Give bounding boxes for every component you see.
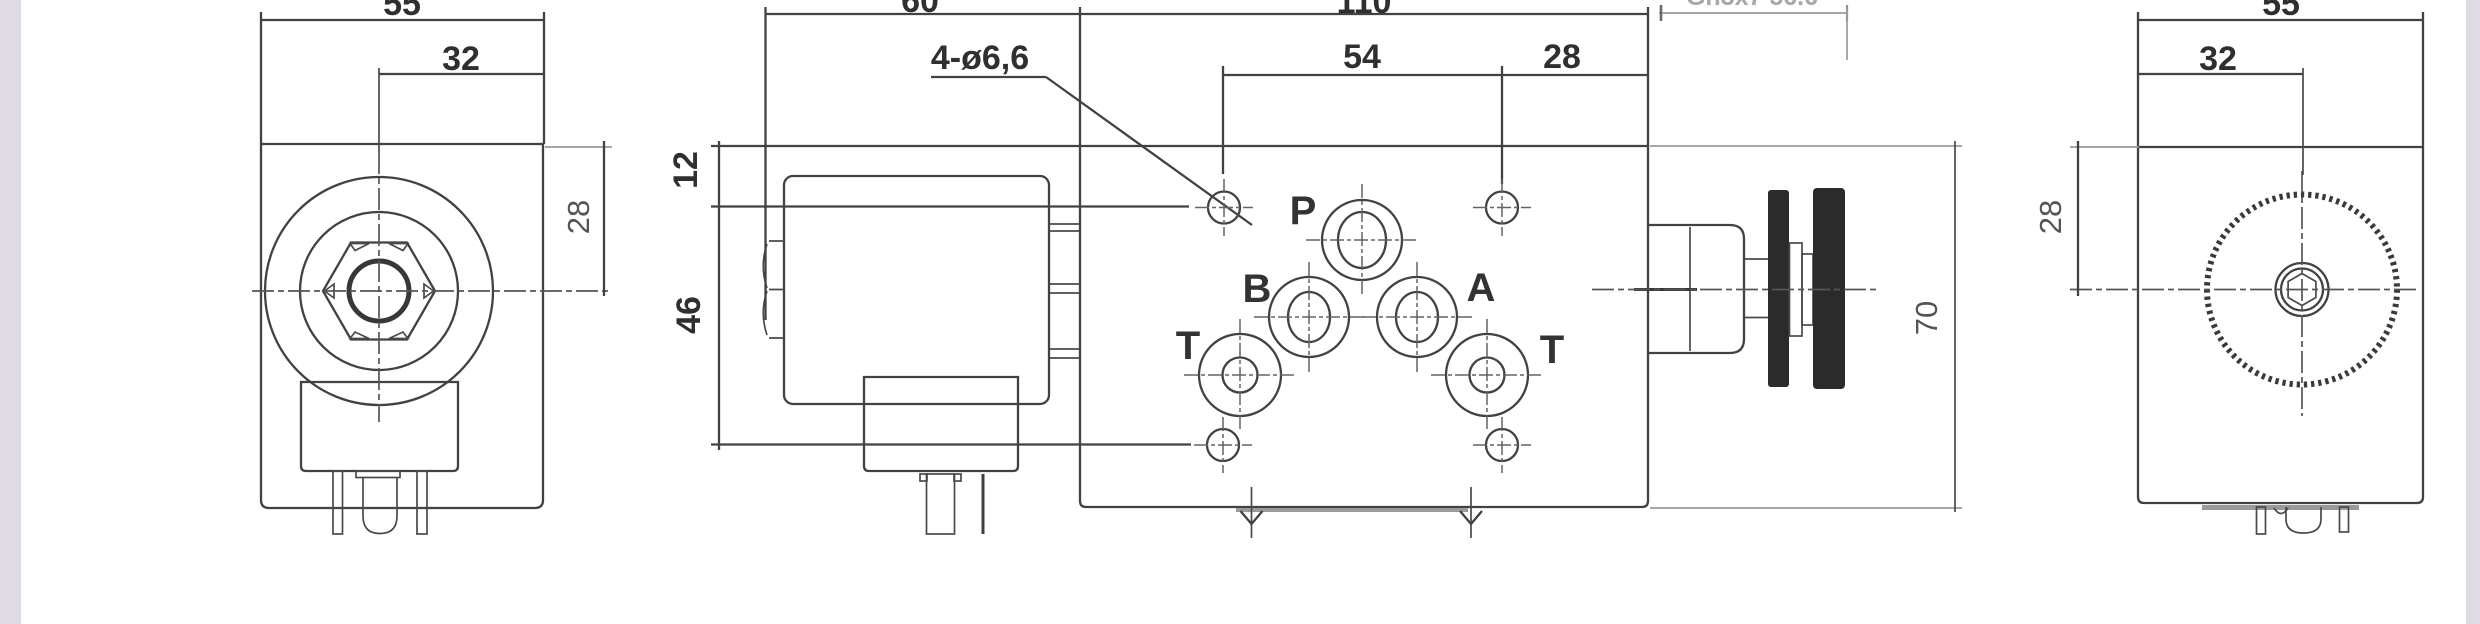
dim 70 ext top: [1650, 145, 1962, 147]
vertical centerline: [378, 68, 380, 152]
dim 32 ext right / centerline solid: [2302, 68, 2304, 175]
hex nut: [323, 243, 435, 340]
pin middle barrel: [363, 478, 397, 534]
mounting hole bottom-right: [1486, 429, 1518, 461]
svg-text:28: 28: [2033, 200, 2068, 234]
dim 55 ext left: [2137, 12, 2139, 147]
gasket band bottom: [1236, 508, 1468, 512]
dim 28 ext top: [545, 146, 612, 148]
dim 28 ext top: [2070, 146, 2139, 148]
solenoid connector box: [864, 377, 1018, 471]
hex chamfer mark right: [424, 284, 434, 298]
countersink mark right line: [1470, 487, 1472, 538]
dim 60 line: [766, 13, 1081, 15]
dim 55 ext left: [260, 12, 262, 144]
port P crosshair: [1306, 184, 1418, 296]
port A outer: [1377, 277, 1457, 357]
knob disc small (black): [1768, 190, 1789, 387]
dim 70 ext bottom: [1650, 507, 1962, 509]
countersink mark left arrow: [1241, 511, 1263, 524]
mounting hole bottom-left crosshair: [1194, 417, 1252, 473]
knob socket hexagon: [2288, 274, 2316, 306]
port B crosshair: [1254, 262, 1364, 372]
pin notch arc: [2274, 508, 2288, 514]
leader diagonal: [1046, 77, 1252, 225]
svg-text:Gn3x7 56.6: Gn3x7 56.6: [1686, 0, 1818, 11]
dim 12/46 vertical line: [718, 141, 720, 450]
mounting hole top-right: [1486, 192, 1518, 224]
svg-text:70: 70: [1909, 301, 1944, 335]
body left edge extension to dims: [1079, 7, 1081, 146]
pin barrel middle: [2286, 507, 2321, 533]
svg-text:46: 46: [670, 296, 708, 334]
dim 32 line: [379, 73, 544, 75]
knob hub outer circle: [2276, 263, 2329, 316]
washer large: [1790, 243, 1803, 336]
svg-text:55: 55: [383, 0, 421, 23]
extension line 12/46 boundary (y206.5): [711, 205, 1189, 207]
port B bore: [1288, 292, 1330, 342]
shaft bottom line: [1745, 317, 1768, 319]
dim 110 ext right / body edge extension: [1647, 7, 1649, 146]
gray dim ext right: [1846, 6, 1848, 60]
solenoid pin tab right: [954, 474, 961, 481]
mounting hole top-right crosshair: [1473, 179, 1531, 236]
connector box: [301, 382, 458, 471]
svg-text:110: 110: [1337, 0, 1392, 21]
gray dim line with arrows: [1659, 12, 1847, 14]
neck tube cap bottom: [1049, 349, 1080, 358]
port P outer: [1322, 200, 1402, 280]
vertical centerline: [2301, 171, 2303, 416]
svg-text:60: 60: [901, 0, 939, 20]
solenoid pin barrel: [927, 474, 955, 534]
left page margin strip: [0, 0, 21, 624]
extension line 46 bottom (y444.5): [711, 443, 1191, 445]
knob disc large (black): [1813, 188, 1845, 389]
connector band bottom: [2202, 505, 2359, 510]
svg-text:54: 54: [1343, 38, 1381, 76]
countersink mark right arrow: [1460, 511, 1482, 524]
svg-text:4-ø6,6: 4-ø6,6: [931, 39, 1029, 77]
body outline (end view): [261, 144, 543, 508]
leader underline: [931, 76, 1046, 78]
horizontal centerline: [2070, 289, 2416, 291]
dim 70 line: [1954, 141, 1956, 512]
dim 55 ext right: [543, 12, 545, 144]
pin left: [333, 471, 343, 534]
end nut outline: [1648, 225, 1744, 353]
gray dim tick right: [1846, 5, 1848, 21]
dim 55 line: [2138, 19, 2423, 21]
neck tube cap top: [1049, 224, 1080, 231]
knurled knob ring: [2207, 195, 2397, 385]
svg-text:28: 28: [561, 200, 596, 234]
port A bore: [1396, 292, 1438, 342]
assembly centerline: [1592, 289, 1878, 291]
dim 54 line: [1223, 74, 1502, 76]
right page margin strip: [2466, 0, 2480, 624]
dim 28 line: [603, 141, 605, 296]
hex chamfer mark top-right: [389, 244, 408, 251]
pin right: [2340, 507, 2349, 532]
end nut center split: [1634, 288, 1697, 291]
dim 28 line (top): [1502, 74, 1648, 76]
mounting hole bottom-left: [1207, 429, 1239, 461]
pin left: [2257, 507, 2266, 534]
valve body outline: [1080, 146, 1648, 507]
port T right bore: [1470, 358, 1505, 393]
coil outer circle: [265, 177, 493, 405]
armature tube bold ring: [349, 261, 409, 321]
horizontal centerline: [252, 290, 612, 292]
svg-text:12: 12: [667, 151, 705, 189]
svg-text:28: 28: [1543, 38, 1581, 76]
port P bore: [1338, 212, 1386, 268]
dim 54 ext left: [1222, 66, 1224, 174]
dim 110 line: [1080, 13, 1648, 15]
countersink mark left line: [1251, 487, 1253, 538]
mounting hole top-left crosshair: [1195, 179, 1253, 236]
svg-text:T: T: [1540, 328, 1564, 372]
coil inner circle: [300, 212, 458, 370]
port A crosshair: [1362, 262, 1472, 372]
extension line top (y146): [711, 145, 1080, 147]
solenoid pin blade: [982, 474, 985, 534]
gray dim tick left: [1660, 5, 1663, 21]
solenoid left bracket: [763, 241, 784, 338]
knob hub inner circle: [2281, 269, 2323, 311]
dim 32 line: [2138, 73, 2303, 75]
dim 28 line: [2077, 141, 2079, 296]
port T left bore: [1223, 358, 1258, 393]
dim 55 line: [261, 19, 545, 21]
pin right: [417, 471, 427, 534]
shaft top line: [1745, 258, 1768, 260]
mounting hole top-left: [1208, 192, 1240, 224]
dim 54 ext right: [1501, 66, 1503, 184]
hex chamfer mark bottom-right: [389, 332, 408, 339]
hex chamfer mark top-left: [350, 244, 369, 251]
hex chamfer mark bottom-left: [350, 332, 369, 339]
port T right crosshair: [1431, 319, 1543, 431]
port B outer: [1269, 277, 1349, 357]
svg-text:T: T: [1176, 324, 1200, 368]
port T left crosshair: [1184, 319, 1296, 431]
hex chamfer mark left: [325, 284, 335, 298]
dim 55 ext right: [2422, 12, 2424, 147]
neck tube mid flange: [1049, 284, 1080, 293]
svg-text:32: 32: [442, 40, 480, 78]
svg-text:32: 32: [2199, 40, 2237, 78]
solenoid body (side view): [784, 176, 1049, 404]
solenoid pin tab left: [920, 474, 927, 481]
end nut facet line: [1689, 227, 1691, 351]
port T left outer: [1199, 334, 1281, 416]
svg-text:55: 55: [2262, 0, 2300, 23]
svg-text:A: A: [1467, 266, 1496, 310]
body outline (end view): [2138, 147, 2423, 503]
mounting hole bottom-right crosshair: [1473, 417, 1531, 473]
dim 60 ext line / bracket edge: [764, 7, 766, 320]
washer small: [1802, 254, 1813, 325]
port T right outer: [1446, 334, 1528, 416]
svg-text:B: B: [1243, 267, 1272, 311]
svg-text:P: P: [1290, 189, 1317, 233]
pin middle cap: [356, 471, 400, 478]
